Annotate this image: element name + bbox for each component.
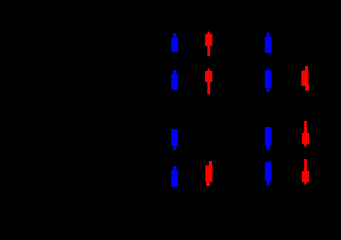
spin arrow blue up, row4 col1 — [171, 166, 178, 187]
spin arrow red tilted, row2 col4 — [301, 66, 309, 91]
spin arrow blue down, row3 col3 — [265, 127, 272, 151]
spin arrow blue up, row2 col1 — [171, 70, 178, 90]
spin arrow red down, row4 col4 — [302, 159, 309, 186]
spin arrow red down, row3 col4 — [302, 121, 309, 148]
spin arrow blue down, row2 col3 — [265, 70, 272, 92]
spin arrow blue up, row1 col1 — [171, 33, 178, 52]
spin arrow blue down, row3 col1 — [171, 129, 178, 150]
spin arrow blue down, row4 col3 — [265, 162, 272, 186]
spin arrow red up, row1 col2 — [205, 31, 212, 56]
spin arrow blue up, row1 col3 — [265, 33, 272, 54]
spin arrow red tilted, row4 col2 — [205, 161, 212, 186]
spin arrow red up, row2 col2 — [205, 68, 212, 95]
